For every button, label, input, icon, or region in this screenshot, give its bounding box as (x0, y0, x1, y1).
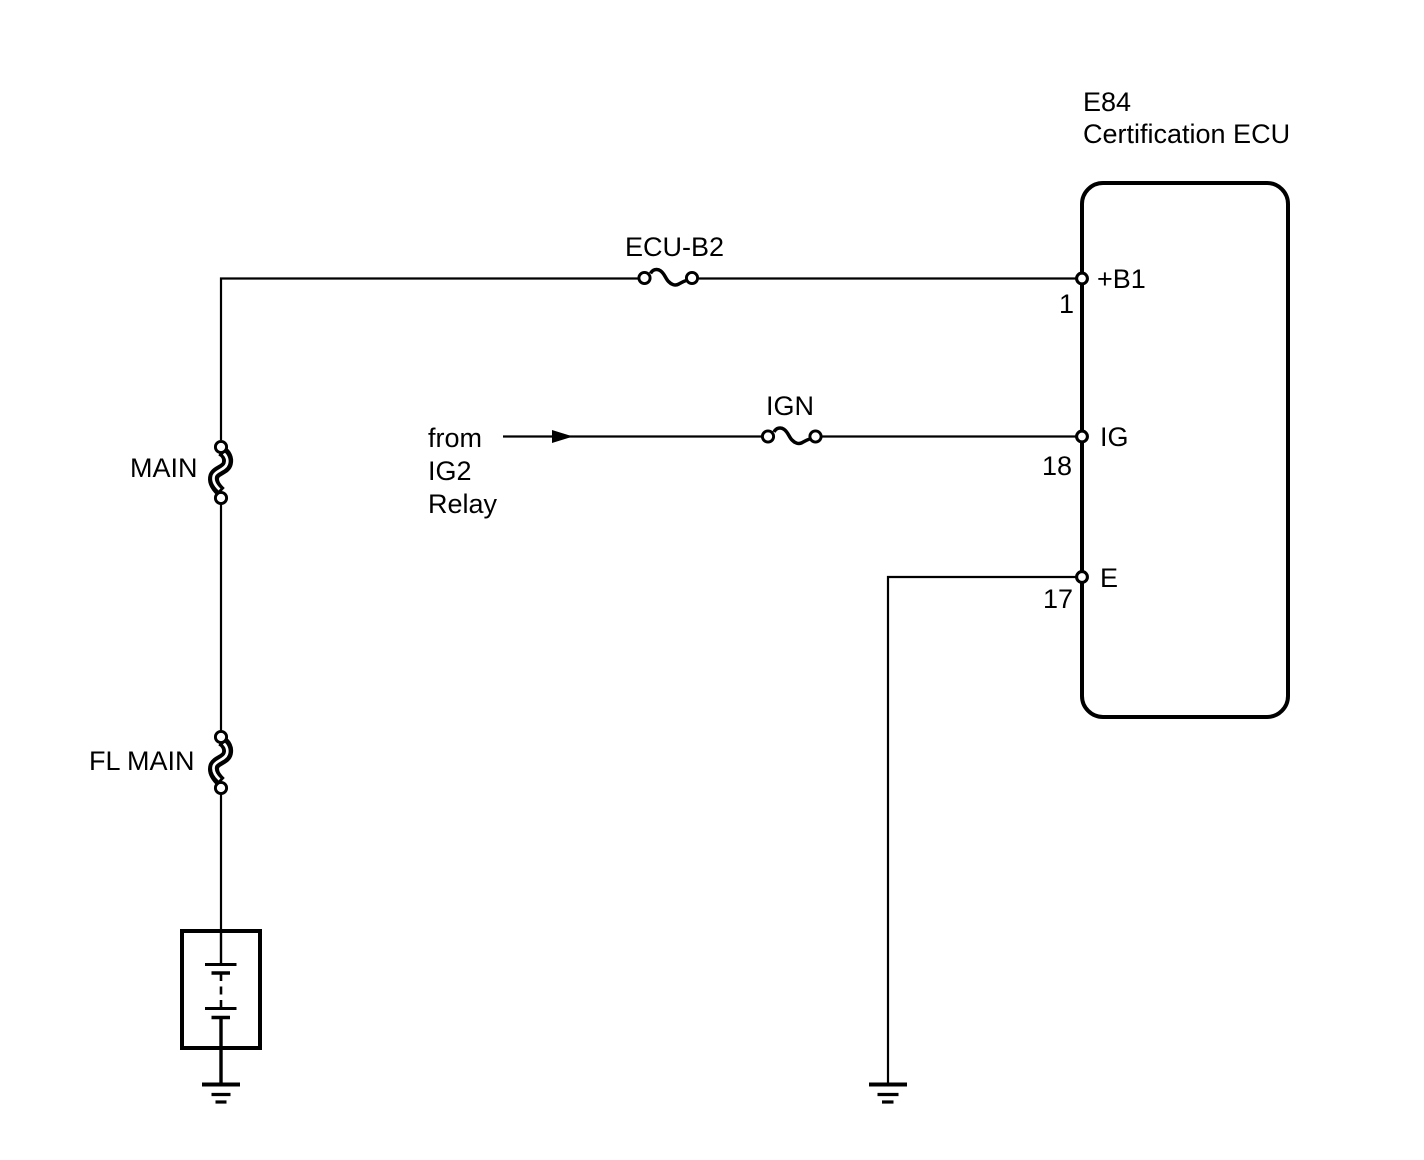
svg-text:17: 17 (1043, 584, 1073, 614)
svg-text:E: E (1100, 563, 1118, 593)
svg-text:Certification ECU: Certification ECU (1083, 119, 1290, 149)
svg-text:+B1: +B1 (1097, 264, 1146, 294)
svg-text:MAIN: MAIN (130, 453, 198, 483)
svg-text:18: 18 (1042, 451, 1072, 481)
svg-text:ECU-B2: ECU-B2 (625, 232, 724, 262)
svg-text:from: from (428, 423, 482, 453)
svg-text:Relay: Relay (428, 489, 498, 519)
svg-text:1: 1 (1059, 289, 1074, 319)
svg-text:IG2: IG2 (428, 456, 472, 486)
svg-text:FL MAIN: FL MAIN (89, 746, 195, 776)
svg-text:IG: IG (1100, 422, 1129, 452)
svg-text:E84: E84 (1083, 87, 1131, 117)
svg-text:IGN: IGN (766, 391, 814, 421)
